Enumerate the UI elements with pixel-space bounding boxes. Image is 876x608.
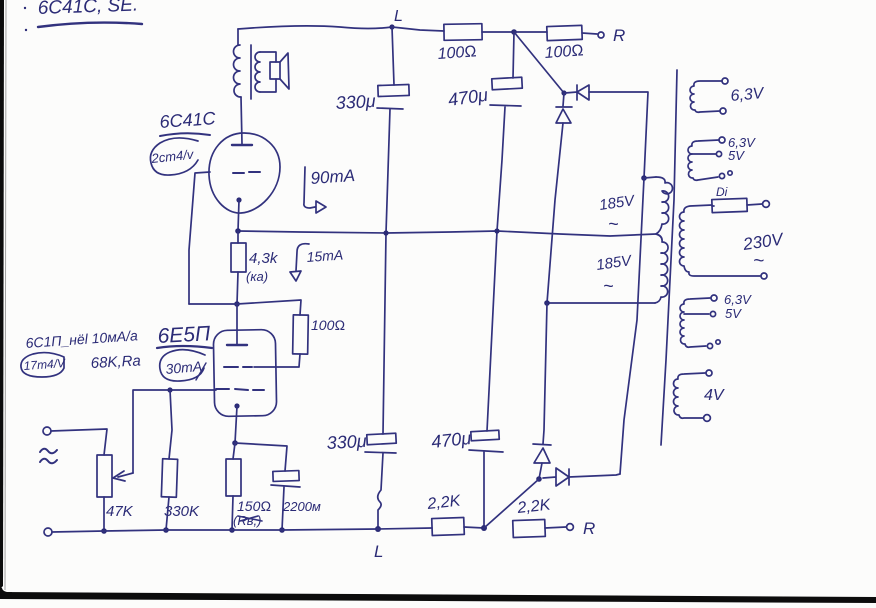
winding 6.3V/5V lower xyxy=(680,298,710,347)
resistor 4.3k xyxy=(231,243,246,272)
svg-text:(ка): (ка) xyxy=(246,269,268,284)
wire D4 to vertical loop xyxy=(569,474,620,477)
wire to node xyxy=(464,527,484,528)
speaker xyxy=(270,62,280,79)
capacitor 330u bottom xyxy=(326,431,367,453)
svg-text:68K,Rа: 68K,Rа xyxy=(90,352,141,372)
diode D4 (points right) xyxy=(543,468,569,486)
wire rail to OPT primary xyxy=(237,29,239,45)
wire rail to resistor xyxy=(237,231,239,243)
capacitor 470u bottom xyxy=(430,428,472,452)
terminal R top xyxy=(598,32,604,38)
winding 185V upper xyxy=(656,177,672,234)
node grid 330K xyxy=(167,387,172,392)
wire coupling node right to 100R xyxy=(237,300,301,315)
svg-text:30mA: 30mA xyxy=(165,358,203,377)
capacitor 330u top xyxy=(378,84,409,96)
node cathode junction xyxy=(232,440,238,446)
wire resistor to R terminal xyxy=(582,33,597,34)
anode bar 6E5P xyxy=(227,344,247,346)
control grid dashes 6E5P xyxy=(216,389,264,390)
scan artifact: left black bar xyxy=(0,0,4,589)
wire 2200u to rail xyxy=(282,487,284,530)
resistor 100R (R) xyxy=(547,25,582,40)
OPT core xyxy=(250,45,252,99)
capacitor 470u top xyxy=(492,77,523,90)
wire node to winding xyxy=(644,177,656,178)
svg-text:330μ: 330μ xyxy=(326,431,367,453)
label 6E5P underline xyxy=(157,346,212,348)
wire mid rail xyxy=(238,231,656,236)
diode D3 (points up) xyxy=(533,444,551,463)
wire mid rail down to 470u bottom xyxy=(487,231,497,431)
svg-text:330K: 330K xyxy=(164,503,200,520)
node 330K ground xyxy=(163,527,169,533)
node diode junction bottom xyxy=(536,476,542,482)
wire L node down to cap xyxy=(392,27,394,85)
svg-text:47K: 47K xyxy=(106,503,134,520)
svg-text:6,3V: 6,3V xyxy=(724,292,752,307)
fuse Di xyxy=(716,185,728,199)
pot wiper arrow xyxy=(113,471,133,481)
wire junction to 2200u xyxy=(235,443,287,471)
cathode dot 6C41C xyxy=(236,197,241,202)
node 2200u ground xyxy=(279,527,285,533)
node L ground xyxy=(375,526,381,532)
wire D3 to node xyxy=(539,463,542,479)
node 150R ground xyxy=(229,527,235,533)
terminal R bottom xyxy=(567,524,574,531)
diagonal wire node to ground node xyxy=(484,479,539,528)
wire coupling node left xyxy=(189,303,237,305)
svg-text:100Ω: 100Ω xyxy=(311,317,345,333)
strike through Rb xyxy=(238,516,262,521)
svg-text:~: ~ xyxy=(608,214,619,234)
winding 6.3V top xyxy=(690,81,722,112)
svg-text:R: R xyxy=(613,26,625,45)
scan artifact: left gray line xyxy=(5,0,6,590)
node cathode rail xyxy=(235,228,241,234)
resistor 2.2K left xyxy=(432,517,465,535)
annotation bubble 17mA/V xyxy=(21,353,64,377)
resistor 330K xyxy=(161,459,177,498)
wire junction to 150R xyxy=(233,443,235,459)
scan artifact: bottom black bar xyxy=(0,592,876,603)
wire grid left and down xyxy=(189,172,210,304)
wire to terminal xyxy=(545,527,566,528)
svg-text:470μ: 470μ xyxy=(430,428,472,452)
annotation bubble 2cm4/v xyxy=(150,138,198,175)
resistor 100R screen xyxy=(293,315,309,354)
svg-text:5V: 5V xyxy=(725,306,742,321)
OPT secondary winding xyxy=(255,52,260,92)
svg-text:17m4/V: 17m4/V xyxy=(23,356,66,373)
svg-text:~: ~ xyxy=(603,276,614,296)
input AC marks xyxy=(40,449,57,464)
svg-text:90mA: 90mA xyxy=(310,166,356,188)
wire resistor to node xyxy=(482,31,514,33)
wire 330u down to mid rail xyxy=(386,109,390,233)
wire B+ diagonal to diode node xyxy=(514,32,564,93)
node 470u rail xyxy=(494,228,499,233)
svg-text:15mA: 15mA xyxy=(306,246,344,265)
wire long vertical right loop xyxy=(620,178,644,474)
capacitor 2200u xyxy=(273,471,299,482)
wire D1 to right corner xyxy=(589,92,648,178)
screen grid dashes 6E5P xyxy=(224,366,252,368)
svg-text:R: R xyxy=(583,519,595,538)
svg-text:Di: Di xyxy=(716,185,728,199)
wire 330u bottom down with squiggle xyxy=(378,453,383,529)
node 330u rail xyxy=(383,230,388,235)
wire OPT primary to anode xyxy=(241,97,242,144)
SECTION: titles and annotations xyxy=(24,0,139,31)
winding 6.3V/5V upper xyxy=(688,140,719,180)
svg-text:4V: 4V xyxy=(704,387,725,404)
diode D1 (points left) xyxy=(565,85,589,100)
wire 100R to screen grid xyxy=(254,354,300,367)
title underline xyxy=(38,23,142,27)
current arrow 90mA xyxy=(304,167,326,213)
wire cathode down xyxy=(235,406,237,443)
anode bar 6C41C xyxy=(232,144,252,146)
wire 150R to rail xyxy=(232,496,233,530)
wire D2 down to lower rail xyxy=(547,123,563,303)
svg-text:L: L xyxy=(394,8,403,25)
svg-text:2200м: 2200м xyxy=(282,499,321,514)
wire secondary to speaker xyxy=(260,52,276,92)
wire pot to ground rail xyxy=(103,497,105,531)
diode D2 (points up) xyxy=(556,93,572,123)
wire node to resistor R xyxy=(514,31,547,33)
node L xyxy=(389,24,394,29)
tube 6E5P envelope xyxy=(213,329,276,416)
svg-text:330μ: 330μ xyxy=(335,91,376,113)
current arrow 15mA xyxy=(290,244,309,281)
resistor 150R xyxy=(226,459,241,496)
terminal input bottom xyxy=(44,528,52,536)
cathode dot 6E5P xyxy=(234,403,239,408)
node lower rail xyxy=(544,300,550,306)
resistor 2.2K right xyxy=(513,519,546,537)
wire from lower rail down xyxy=(543,303,547,444)
svg-text:4,3k: 4,3k xyxy=(249,250,279,267)
resistor 100R (L) xyxy=(444,24,482,41)
svg-text:6Е5П: 6Е5П xyxy=(157,322,211,348)
OPT primary winding xyxy=(234,45,242,97)
wire control grid left xyxy=(133,390,216,473)
node primary top xyxy=(641,175,647,181)
node coupling xyxy=(234,301,240,307)
svg-text:6,3V: 6,3V xyxy=(730,85,766,105)
wire 330K up to grid xyxy=(169,390,172,459)
wire 470u to rail xyxy=(483,452,485,528)
potentiometer 47K xyxy=(97,455,112,497)
winding 185V lower xyxy=(655,234,668,303)
svg-text:6C41C: 6C41C xyxy=(159,108,217,132)
svg-text:L: L xyxy=(374,542,383,561)
node pot ground xyxy=(101,528,107,534)
wire bottom rail xyxy=(52,528,432,532)
wire L to resistor xyxy=(392,27,444,31)
wire cathode down xyxy=(238,200,239,231)
label 6C41C underline xyxy=(160,133,210,136)
grid dashes 6C41C xyxy=(233,172,260,173)
wire top rail left xyxy=(238,26,392,29)
wire mid rail down to 330u bottom xyxy=(383,233,386,434)
wire 470u down to mid rail xyxy=(497,107,505,231)
note 6S1P xyxy=(25,327,141,372)
node rectifier ground xyxy=(481,525,487,531)
wire 4.3k to coupling node xyxy=(237,272,238,304)
wire B+ node down to 470u xyxy=(513,32,514,78)
svg-text:100Ω: 100Ω xyxy=(437,43,477,63)
svg-text:100Ω: 100Ω xyxy=(544,42,584,62)
wire anode up xyxy=(236,304,238,345)
svg-text:150Ω: 150Ω xyxy=(237,498,271,514)
wire input to pot xyxy=(51,429,107,455)
wire 330K to rail xyxy=(166,497,169,530)
svg-text:5V: 5V xyxy=(728,148,745,163)
svg-text:~: ~ xyxy=(753,251,764,272)
wire winding bottom to D3 drop xyxy=(547,302,655,304)
winding 4V xyxy=(674,373,706,418)
winding 230V xyxy=(680,205,761,276)
SECTION: tube 6E5P xyxy=(157,322,211,348)
power transformer core xyxy=(661,70,677,445)
terminal input top xyxy=(43,427,51,435)
tube 6C41C envelope xyxy=(209,133,280,213)
node B+ xyxy=(511,29,517,35)
node diode junction top xyxy=(561,90,566,95)
annotation bubble 30mA xyxy=(160,350,205,381)
